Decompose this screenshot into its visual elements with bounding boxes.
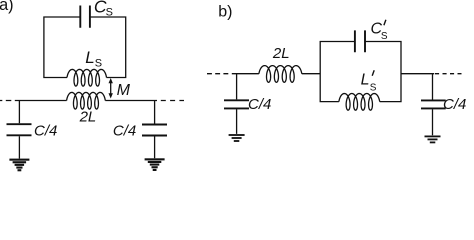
svg-text:S: S [381,31,388,42]
svg-text:S: S [95,57,102,69]
svg-text:2L: 2L [272,45,290,62]
svg-text:C/4: C/4 [443,96,466,113]
svg-text:C/4: C/4 [248,96,271,113]
svg-text:L: L [361,71,370,88]
svg-text:L: L [85,48,94,67]
svg-text:a): a) [0,0,14,14]
svg-text:S: S [370,82,377,93]
svg-text:S: S [106,6,113,18]
svg-text:C/4: C/4 [34,122,57,139]
svg-text:M: M [117,82,131,99]
svg-text:b): b) [218,4,232,21]
svg-text:C/4: C/4 [113,122,136,139]
svg-text:2L: 2L [79,109,97,126]
